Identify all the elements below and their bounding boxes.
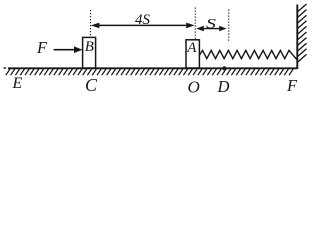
svg-text:C: C <box>85 75 98 95</box>
svg-text:B: B <box>85 39 94 55</box>
svg-text:E: E <box>12 75 23 92</box>
svg-text:F: F <box>286 76 298 95</box>
svg-text:4S: 4S <box>135 12 151 28</box>
svg-text:O: O <box>188 78 200 97</box>
svg-text:D: D <box>217 77 230 96</box>
svg-text:F: F <box>36 38 48 57</box>
svg-text:S: S <box>206 16 217 31</box>
svg-text:A: A <box>186 40 197 56</box>
